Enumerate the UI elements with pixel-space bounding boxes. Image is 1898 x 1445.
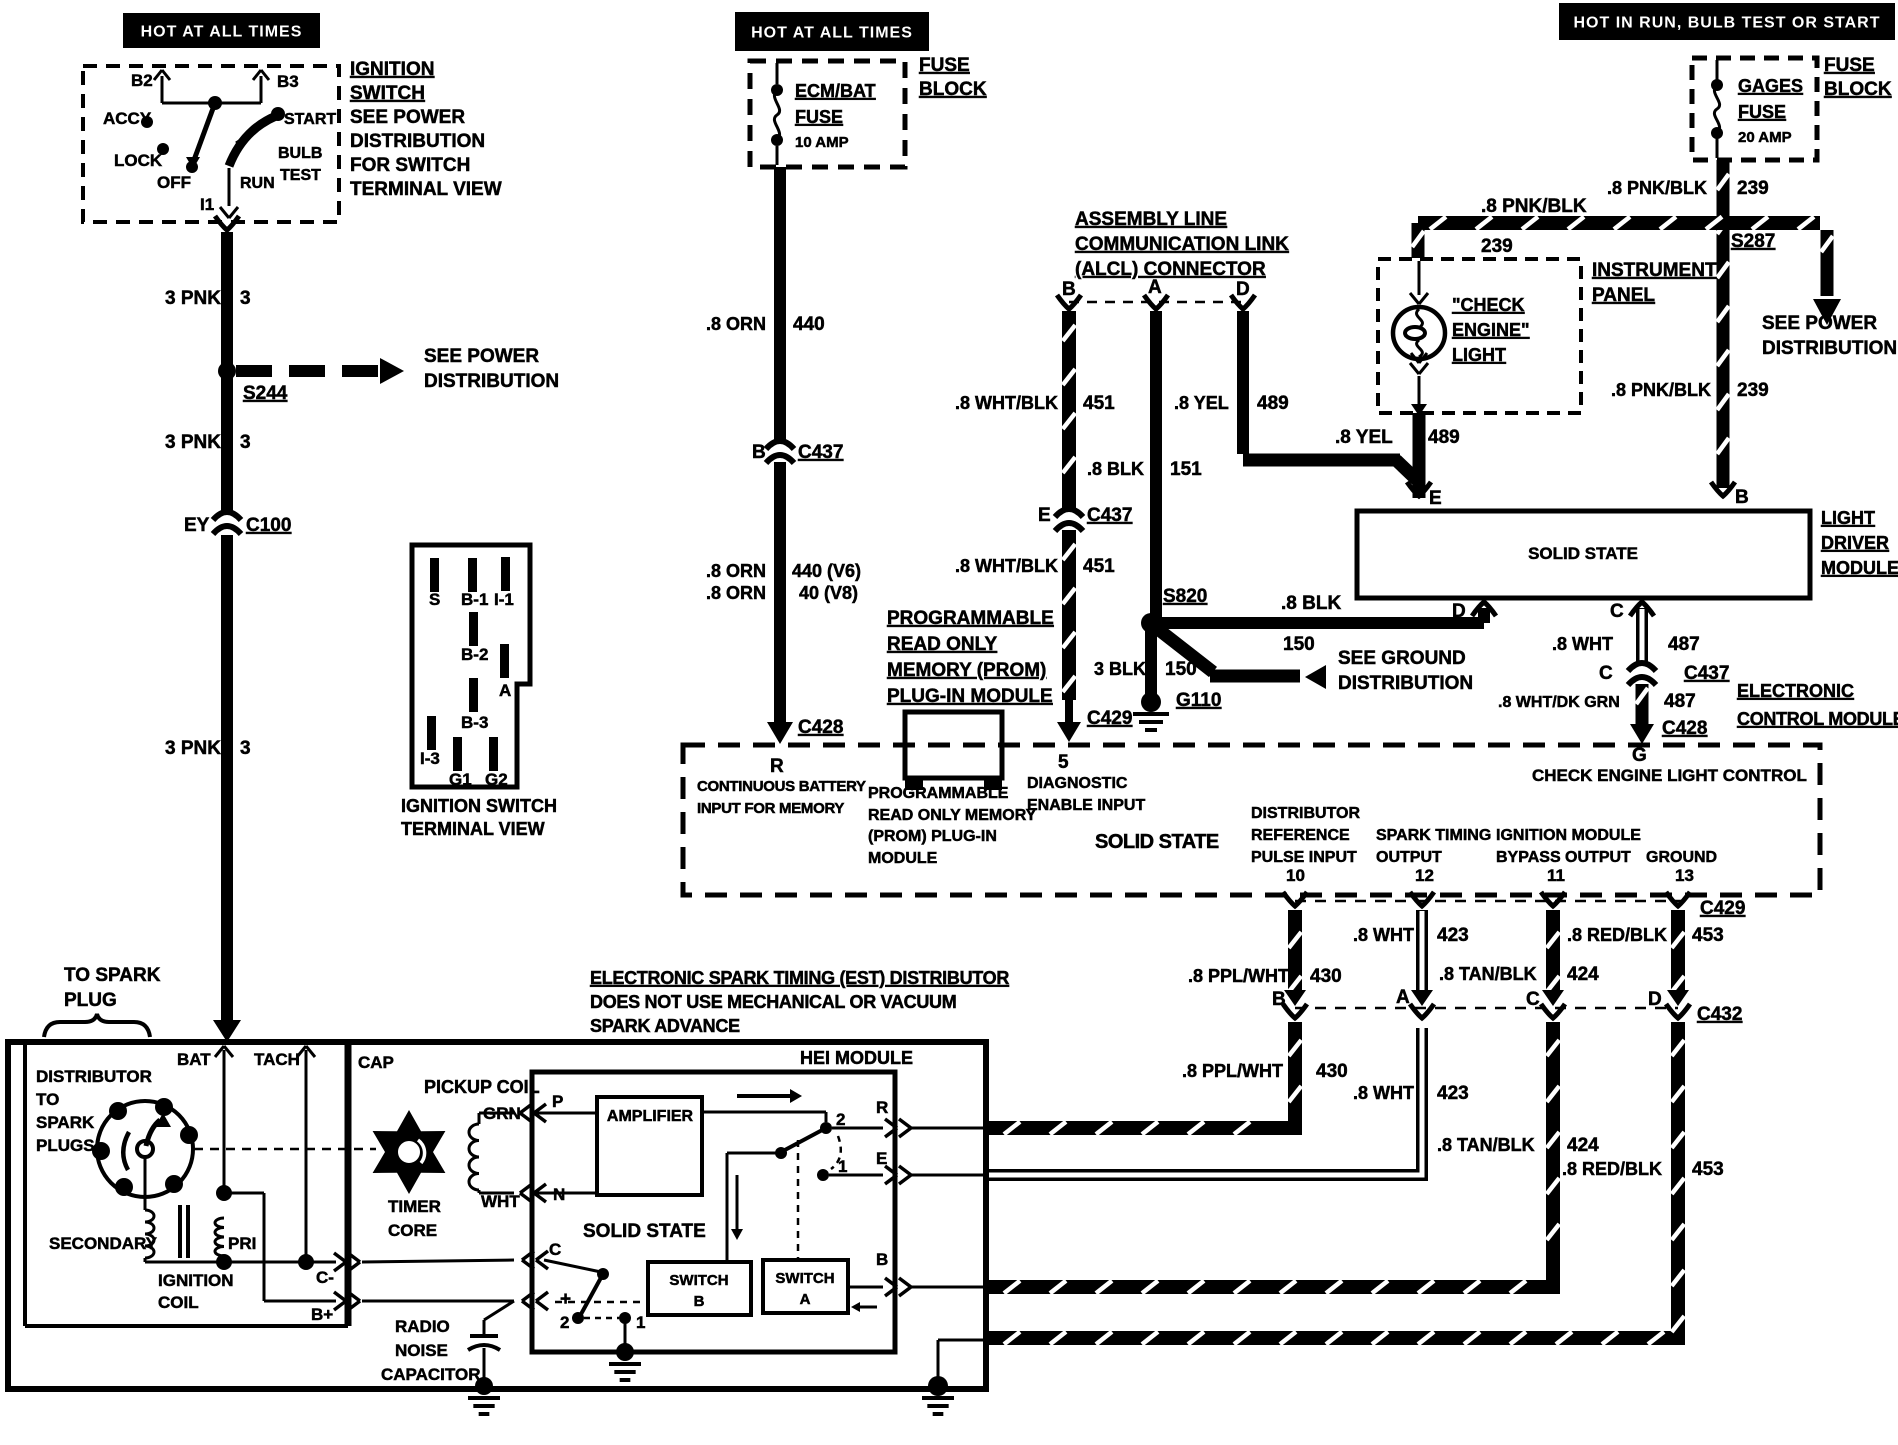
svg-text:239: 239 xyxy=(1481,236,1513,257)
svg-text:2: 2 xyxy=(560,1313,569,1332)
svg-text:10 AMP: 10 AMP xyxy=(795,134,849,151)
svg-text:PROGRAMMABLE: PROGRAMMABLE xyxy=(868,785,1009,802)
svg-text:C432: C432 xyxy=(1697,1004,1742,1025)
svg-text:SEE POWER: SEE POWER xyxy=(350,107,465,128)
svg-text:ELECTRONIC: ELECTRONIC xyxy=(1737,681,1854,701)
svg-text:D: D xyxy=(1236,279,1250,300)
svg-text:C428: C428 xyxy=(798,717,843,738)
svg-text:RUN: RUN xyxy=(240,175,275,192)
svg-text:150: 150 xyxy=(1165,659,1197,680)
svg-text:LOCK: LOCK xyxy=(114,151,163,170)
svg-text:3 PNK: 3 PNK xyxy=(165,738,221,759)
svg-text:A: A xyxy=(1148,277,1162,298)
svg-text:B-2: B-2 xyxy=(461,645,488,664)
svg-text:I-1: I-1 xyxy=(494,590,514,609)
svg-text:.8 YEL: .8 YEL xyxy=(1174,393,1229,413)
svg-text:.8 ORN: .8 ORN xyxy=(706,561,766,581)
svg-text:.8 WHT/DK GRN: .8 WHT/DK GRN xyxy=(1498,694,1620,711)
svg-text:MEMORY (PROM): MEMORY (PROM) xyxy=(887,660,1046,681)
svg-text:.8 PNK/BLK: .8 PNK/BLK xyxy=(1611,380,1711,400)
svg-text:IGNITION: IGNITION xyxy=(158,1271,234,1290)
svg-text:CHECK ENGINE LIGHT CONTROL: CHECK ENGINE LIGHT CONTROL xyxy=(1532,766,1807,785)
svg-text:3 BLK: 3 BLK xyxy=(1094,659,1146,679)
svg-text:E: E xyxy=(1038,505,1051,526)
svg-text:B+: B+ xyxy=(311,1305,333,1324)
svg-text:3 PNK: 3 PNK xyxy=(165,288,221,309)
svg-text:AMPLIFIER: AMPLIFIER xyxy=(607,1108,694,1125)
svg-text:423: 423 xyxy=(1437,925,1469,946)
svg-text:ACCY: ACCY xyxy=(103,109,152,128)
svg-text:RADIO: RADIO xyxy=(395,1317,450,1336)
svg-text:SPARK ADVANCE: SPARK ADVANCE xyxy=(590,1016,740,1036)
svg-text:440 (V6): 440 (V6) xyxy=(792,561,861,581)
svg-text:C429: C429 xyxy=(1087,708,1132,729)
svg-text:FUSE: FUSE xyxy=(1738,102,1786,122)
svg-text:FUSE: FUSE xyxy=(919,55,970,76)
svg-text:B-1: B-1 xyxy=(461,590,488,609)
svg-text:TO: TO xyxy=(36,1090,59,1109)
svg-text:SEE GROUND: SEE GROUND xyxy=(1338,648,1466,669)
svg-text:INPUT FOR MEMORY: INPUT FOR MEMORY xyxy=(697,800,844,817)
svg-text:3: 3 xyxy=(240,432,251,453)
svg-text:12: 12 xyxy=(1415,866,1434,885)
svg-text:B: B xyxy=(694,1293,705,1310)
svg-text:ELECTRONIC SPARK TIMING (EST): ELECTRONIC SPARK TIMING (EST) DISTRIBUTO… xyxy=(590,968,1009,988)
svg-text:TO SPARK: TO SPARK xyxy=(64,965,161,986)
svg-text:D: D xyxy=(1452,601,1466,622)
svg-text:INSTRUMENT: INSTRUMENT xyxy=(1592,260,1717,281)
svg-text:151: 151 xyxy=(1170,459,1202,480)
svg-text:13: 13 xyxy=(1675,866,1694,885)
svg-text:440: 440 xyxy=(793,314,825,335)
svg-text:.8 RED/BLK: .8 RED/BLK xyxy=(1567,925,1667,945)
svg-text:START: START xyxy=(284,111,336,128)
svg-text:EY: EY xyxy=(184,515,210,536)
svg-text:SOLID STATE: SOLID STATE xyxy=(1528,544,1638,563)
svg-text:BLOCK: BLOCK xyxy=(919,79,987,100)
svg-text:DIAGNOSTIC: DIAGNOSTIC xyxy=(1027,775,1128,792)
svg-text:PLUG-IN MODULE: PLUG-IN MODULE xyxy=(887,686,1053,707)
svg-text:DISTRIBUTION: DISTRIBUTION xyxy=(424,371,559,392)
svg-text:BYPASS OUTPUT: BYPASS OUTPUT xyxy=(1496,849,1631,866)
svg-text:3: 3 xyxy=(240,288,251,309)
svg-text:BULB: BULB xyxy=(278,145,322,162)
svg-text:E: E xyxy=(876,1149,887,1168)
svg-text:.8 TAN/BLK: .8 TAN/BLK xyxy=(1437,1135,1535,1155)
svg-text:B: B xyxy=(1735,487,1749,508)
svg-text:HEI MODULE: HEI MODULE xyxy=(800,1048,913,1068)
svg-text:TACH: TACH xyxy=(254,1050,300,1069)
svg-text:BAT: BAT xyxy=(177,1050,211,1069)
svg-text:MODULE: MODULE xyxy=(868,850,938,867)
svg-text:C428: C428 xyxy=(1662,718,1707,739)
svg-text:MODULE: MODULE xyxy=(1821,558,1898,578)
svg-text:.8 WHT/BLK: .8 WHT/BLK xyxy=(955,393,1058,413)
svg-text:.8 ORN: .8 ORN xyxy=(706,314,766,334)
svg-text:489: 489 xyxy=(1257,393,1289,414)
svg-text:TEST: TEST xyxy=(280,167,321,184)
svg-text:G110: G110 xyxy=(1176,690,1221,711)
svg-text:239: 239 xyxy=(1737,178,1769,199)
svg-text:451: 451 xyxy=(1083,393,1115,414)
svg-text:SOLID STATE: SOLID STATE xyxy=(583,1221,706,1242)
svg-text:10: 10 xyxy=(1286,866,1305,885)
svg-text:S: S xyxy=(429,590,440,609)
svg-text:PLUGS: PLUGS xyxy=(36,1136,95,1155)
svg-text:DISTRIBUTION: DISTRIBUTION xyxy=(1762,338,1897,359)
svg-text:5: 5 xyxy=(1058,752,1069,773)
svg-text:.8 ORN: .8 ORN xyxy=(706,583,766,603)
svg-text:NOISE: NOISE xyxy=(395,1341,448,1360)
svg-text:HOT AT ALL TIMES: HOT AT ALL TIMES xyxy=(141,24,303,41)
svg-text:430: 430 xyxy=(1316,1061,1348,1082)
svg-text:C429: C429 xyxy=(1700,898,1745,919)
svg-text:OFF: OFF xyxy=(157,173,191,192)
svg-text:(ALCL) CONNECTOR: (ALCL) CONNECTOR xyxy=(1075,259,1266,280)
svg-text:20 AMP: 20 AMP xyxy=(1738,129,1792,146)
svg-text:.8 TAN/BLK: .8 TAN/BLK xyxy=(1439,964,1537,984)
svg-text:B-3: B-3 xyxy=(461,713,488,732)
svg-text:FOR SWITCH: FOR SWITCH xyxy=(350,155,470,176)
svg-text:SPARK: SPARK xyxy=(36,1113,95,1132)
svg-text:PROGRAMMABLE: PROGRAMMABLE xyxy=(887,608,1054,629)
svg-text:CAPACITOR: CAPACITOR xyxy=(381,1365,481,1384)
svg-text:.8 BLK: .8 BLK xyxy=(1087,459,1144,479)
svg-text:PICKUP COIL: PICKUP COIL xyxy=(424,1077,540,1097)
svg-text:DISTRIBUTION: DISTRIBUTION xyxy=(1338,673,1473,694)
svg-text:+: + xyxy=(560,1289,571,1310)
svg-text:BLOCK: BLOCK xyxy=(1824,79,1892,100)
svg-text:A: A xyxy=(1396,987,1410,1008)
svg-text:B: B xyxy=(1062,279,1076,300)
svg-text:G: G xyxy=(1632,745,1647,766)
svg-text:GROUND: GROUND xyxy=(1646,849,1717,866)
svg-text:DISTRIBUTOR: DISTRIBUTOR xyxy=(1251,805,1360,822)
svg-text:453: 453 xyxy=(1692,1159,1724,1180)
svg-text:451: 451 xyxy=(1083,556,1115,577)
svg-text:PLUG: PLUG xyxy=(64,990,117,1011)
svg-text:TIMER: TIMER xyxy=(388,1197,441,1216)
svg-text:DISTRIBUTION: DISTRIBUTION xyxy=(350,131,485,152)
svg-text:SWITCH: SWITCH xyxy=(775,1270,834,1287)
svg-text:S244: S244 xyxy=(243,383,288,404)
svg-text:424: 424 xyxy=(1567,964,1599,985)
svg-text:.8 WHT: .8 WHT xyxy=(1552,634,1613,654)
svg-text:B2: B2 xyxy=(131,71,153,90)
svg-text:B3: B3 xyxy=(277,72,299,91)
svg-text:430: 430 xyxy=(1310,966,1342,987)
svg-text:PRI: PRI xyxy=(228,1234,256,1253)
svg-text:DOES NOT USE MECHANICAL OR VAC: DOES NOT USE MECHANICAL OR VACUUM xyxy=(590,992,956,1012)
svg-text:.8 YEL: .8 YEL xyxy=(1335,427,1393,448)
svg-text:PULSE INPUT: PULSE INPUT xyxy=(1251,849,1357,866)
svg-text:LIGHT: LIGHT xyxy=(1452,345,1506,365)
svg-text:.8 PPL/WHT: .8 PPL/WHT xyxy=(1188,966,1289,986)
svg-text:487: 487 xyxy=(1664,691,1696,712)
svg-text:C: C xyxy=(549,1240,561,1259)
svg-text:REFERENCE: REFERENCE xyxy=(1251,827,1350,844)
svg-text:SEE POWER: SEE POWER xyxy=(1762,313,1877,334)
svg-text:COIL: COIL xyxy=(158,1293,199,1312)
svg-text:11: 11 xyxy=(1547,866,1565,885)
svg-text:DRIVER: DRIVER xyxy=(1821,533,1889,553)
svg-text:.8 WHT: .8 WHT xyxy=(1353,925,1414,945)
svg-text:HOT IN RUN, BULB TEST OR STAR: HOT IN RUN, BULB TEST OR START xyxy=(1573,15,1880,32)
svg-text:G1: G1 xyxy=(449,770,472,789)
svg-text:IGNITION MODULE: IGNITION MODULE xyxy=(1496,827,1641,844)
svg-text:TERMINAL VIEW: TERMINAL VIEW xyxy=(350,179,502,200)
svg-text:SECONDARY: SECONDARY xyxy=(49,1234,158,1253)
svg-text:C100: C100 xyxy=(246,515,291,536)
svg-text:SPARK TIMING: SPARK TIMING xyxy=(1376,827,1491,844)
svg-text:150: 150 xyxy=(1283,634,1315,655)
svg-text:C437: C437 xyxy=(1087,505,1132,526)
svg-text:CORE: CORE xyxy=(388,1221,437,1240)
svg-text:SWITCH: SWITCH xyxy=(350,83,425,104)
svg-text:(PROM) PLUG-IN: (PROM) PLUG-IN xyxy=(868,828,997,845)
svg-text:C: C xyxy=(1599,663,1613,684)
svg-text:C437: C437 xyxy=(798,442,843,463)
svg-text:PANEL: PANEL xyxy=(1592,285,1655,306)
svg-text:FUSE: FUSE xyxy=(1824,55,1875,76)
svg-text:SEE POWER: SEE POWER xyxy=(424,346,539,367)
svg-text:453: 453 xyxy=(1692,925,1724,946)
svg-text:3: 3 xyxy=(240,738,251,759)
svg-text:424: 424 xyxy=(1567,1135,1599,1156)
svg-text:I-3: I-3 xyxy=(420,749,440,768)
svg-text:.8 WHT/BLK: .8 WHT/BLK xyxy=(955,556,1058,576)
svg-text:C: C xyxy=(1610,601,1624,622)
svg-text:ENGINE": ENGINE" xyxy=(1452,320,1530,340)
svg-text:.8 BLK: .8 BLK xyxy=(1281,593,1341,614)
svg-text:A: A xyxy=(499,681,511,700)
svg-text:R: R xyxy=(770,756,784,777)
svg-text:3 PNK: 3 PNK xyxy=(165,432,221,453)
svg-text:R: R xyxy=(876,1098,888,1117)
svg-text:B: B xyxy=(752,442,766,463)
svg-text:READ ONLY MEMORY: READ ONLY MEMORY xyxy=(868,807,1037,824)
svg-text:.8 WHT: .8 WHT xyxy=(1353,1083,1414,1103)
svg-text:2: 2 xyxy=(836,1110,845,1129)
svg-text:HOT AT ALL TIMES: HOT AT ALL TIMES xyxy=(751,25,913,42)
svg-text:ENABLE INPUT: ENABLE INPUT xyxy=(1027,797,1145,814)
svg-text:A: A xyxy=(800,1291,811,1308)
svg-text:I1: I1 xyxy=(200,195,214,214)
svg-text:CONTROL MODULE: CONTROL MODULE xyxy=(1737,709,1898,729)
svg-text:1: 1 xyxy=(636,1313,645,1332)
svg-text:IGNITION: IGNITION xyxy=(350,59,434,80)
svg-text:DISTRIBUTOR: DISTRIBUTOR xyxy=(36,1067,152,1086)
svg-text:C437: C437 xyxy=(1684,663,1729,684)
svg-text:.8 PNK/BLK: .8 PNK/BLK xyxy=(1481,196,1587,217)
svg-text:1: 1 xyxy=(838,1157,847,1176)
svg-text:CONTINUOUS BATTERY: CONTINUOUS BATTERY xyxy=(697,778,866,795)
svg-text:"CHECK: "CHECK xyxy=(1452,295,1525,315)
svg-text:489: 489 xyxy=(1428,427,1460,448)
svg-text:P: P xyxy=(552,1092,563,1111)
svg-text:40 (V8): 40 (V8) xyxy=(799,583,858,603)
svg-text:GAGES: GAGES xyxy=(1738,76,1803,96)
svg-text:.8 RED/BLK: .8 RED/BLK xyxy=(1562,1159,1662,1179)
svg-text:239: 239 xyxy=(1737,380,1769,401)
svg-text:487: 487 xyxy=(1668,634,1700,655)
svg-text:READ ONLY: READ ONLY xyxy=(887,634,997,655)
svg-text:ASSEMBLY LINE: ASSEMBLY LINE xyxy=(1075,209,1227,230)
svg-text:ECM/BAT: ECM/BAT xyxy=(795,81,876,101)
svg-text:S820: S820 xyxy=(1163,586,1207,607)
svg-text:E: E xyxy=(1429,488,1442,509)
svg-text:G2: G2 xyxy=(485,770,508,789)
svg-text:FUSE: FUSE xyxy=(795,107,843,127)
svg-text:IGNITION SWITCH: IGNITION SWITCH xyxy=(401,796,557,816)
svg-text:SOLID STATE: SOLID STATE xyxy=(1095,831,1219,853)
svg-text:SWITCH: SWITCH xyxy=(669,1272,728,1289)
svg-text:CAP: CAP xyxy=(358,1053,394,1072)
svg-text:WHT: WHT xyxy=(481,1192,520,1211)
svg-text:TERMINAL VIEW: TERMINAL VIEW xyxy=(401,819,545,839)
svg-text:S287: S287 xyxy=(1731,231,1775,252)
svg-text:OUTPUT: OUTPUT xyxy=(1376,849,1442,866)
svg-text:COMMUNICATION LINK: COMMUNICATION LINK xyxy=(1075,234,1289,255)
svg-text:C-: C- xyxy=(316,1268,334,1287)
svg-text:B: B xyxy=(876,1250,888,1269)
svg-text:423: 423 xyxy=(1437,1083,1469,1104)
svg-text:.8 PPL/WHT: .8 PPL/WHT xyxy=(1182,1061,1283,1081)
svg-text:LIGHT: LIGHT xyxy=(1821,508,1875,528)
svg-text:.8 PNK/BLK: .8 PNK/BLK xyxy=(1607,178,1707,198)
